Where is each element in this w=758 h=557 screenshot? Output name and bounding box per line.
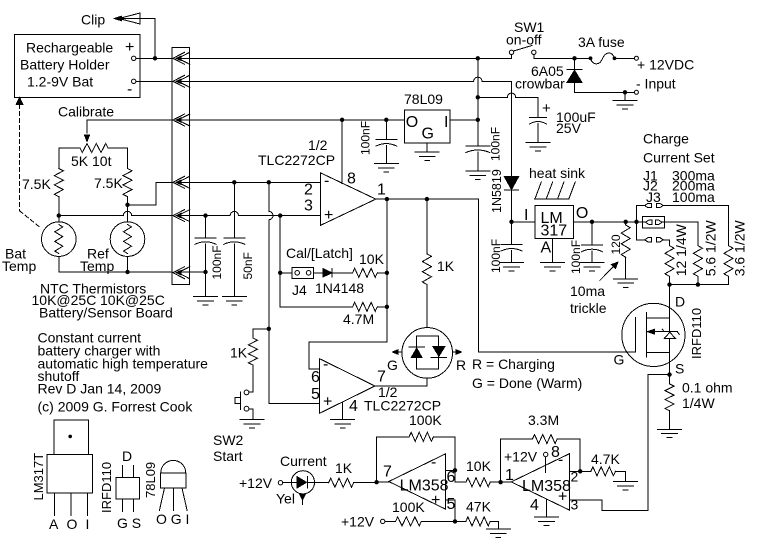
label Ref Temp: [80, 246, 114, 275]
op-amp U3b LM358: [504, 444, 579, 514]
strip arrow y=215.6: [173, 210, 185, 222]
thermistor TH1 Bat Temp: [42, 222, 77, 257]
wire U3b pin4 ground: [546, 499, 548, 517]
svg-text:trickle: trickle: [570, 300, 607, 316]
svg-text:317: 317: [541, 222, 568, 239]
switch SW1 on-off: [506, 19, 545, 55]
svg-text:100K: 100K: [392, 499, 425, 515]
svg-text:-: -: [127, 81, 132, 98]
wire J2 to R10: [662, 222, 698, 246]
ground R8: [614, 278, 638, 280]
wire latch riser: [269, 182, 273, 328]
wire to LM317 I: [512, 221, 536, 223]
svg-text:78L09: 78L09: [143, 462, 158, 498]
svg-text:+12V: +12V: [341, 514, 375, 530]
svg-text:Battery Holder: Battery Holder: [20, 57, 110, 73]
junction pin5 node: [453, 519, 457, 523]
svg-text:A: A: [49, 516, 59, 532]
wire SW1 to fuse: [534, 54, 589, 58]
svg-text:Start: Start: [213, 448, 243, 464]
wire source sense to U3b pin3: [570, 375, 670, 511]
svg-text:Clip: Clip: [81, 12, 105, 28]
wire calibrate to strip: [87, 120, 172, 133]
svg-text:3.3M: 3.3M: [528, 412, 559, 428]
ground C4: [194, 296, 218, 298]
package outline LM317T: [31, 420, 92, 532]
svg-text:G: G: [387, 357, 398, 373]
strip arrow y=58.3: [173, 52, 185, 64]
svg-text:+12V: +12V: [239, 475, 273, 491]
op-amp U3a LM358: [383, 454, 456, 513]
capacitor C2 100nF: [359, 120, 397, 164]
wire R3 to Ref Temp: [127, 205, 129, 222]
svg-text:heat sink: heat sink: [529, 165, 586, 181]
diode D2 1N5819: [490, 169, 519, 222]
svg-text:100K: 100K: [409, 412, 442, 428]
wire battery- to strip: [136, 80, 172, 82]
potentiometer R1 5K 10t: [59, 144, 128, 170]
svg-text:7: 7: [383, 464, 392, 481]
wire U2 I to riser: [450, 119, 478, 121]
connector strip J-board: [172, 48, 190, 285]
svg-text:I: I: [524, 207, 528, 224]
junction R2 bottom / Bat Temp: [57, 213, 61, 217]
battery + terminal: [132, 56, 136, 60]
junction thermistor bottoms: [125, 270, 129, 274]
svg-text:4.7M: 4.7M: [343, 311, 374, 327]
resistor R11 3.6 1/2W: [724, 219, 748, 276]
svg-text:1K: 1K: [335, 460, 353, 476]
svg-text:+: +: [431, 492, 440, 509]
junction 9V / C2: [384, 118, 388, 122]
wire 78L09 input riser: [477, 58, 479, 146]
junction 1N5819 / LM317 I: [509, 220, 513, 224]
label NTC Thermistors: [32, 281, 165, 309]
svg-text:+12V: +12V: [504, 449, 538, 465]
terminal +12V LED: [239, 475, 291, 491]
ground C6: [500, 262, 524, 264]
junction U3b output: [498, 480, 502, 484]
wire J3 to R9: [663, 240, 669, 246]
svg-text:1K: 1K: [230, 345, 248, 361]
calibrate wiper arrow: [84, 135, 89, 142]
wire battery+ to strip: [136, 57, 172, 59]
svg-text:+: +: [323, 394, 332, 411]
svg-text:4: 4: [349, 398, 358, 415]
svg-text:J3: J3: [646, 189, 661, 205]
capacitor C7 100nF at LM317 out: [569, 222, 603, 274]
ground C3: [466, 170, 490, 172]
wire jumper commons: [637, 206, 646, 240]
svg-text:5: 5: [311, 386, 320, 403]
svg-text:1: 1: [377, 182, 386, 199]
thermal link arrow to battery: [16, 98, 23, 105]
thermal link dashed wire: [20, 105, 41, 229]
junction output / 1K LED: [425, 197, 429, 201]
resistor R8 120 trickle: [609, 222, 630, 279]
wire U3b pin2: [570, 470, 581, 472]
junction feedback / 10K: [385, 271, 389, 275]
svg-text:7: 7: [377, 369, 386, 386]
ground U1b: [331, 419, 355, 421]
ground R19: [614, 481, 638, 483]
title text block: [38, 330, 209, 415]
wire J4 riser: [279, 216, 281, 307]
svg-text:4: 4: [530, 497, 539, 514]
svg-text:LM358: LM358: [522, 478, 571, 495]
svg-text:I: I: [86, 516, 90, 532]
junction O / jumpers: [634, 220, 638, 224]
wire thermistor bottoms to strip: [59, 256, 172, 272]
resistor R3 7.5K: [94, 169, 132, 205]
svg-text:100nF: 100nF: [489, 127, 503, 161]
svg-text:100nF: 100nF: [210, 245, 224, 279]
svg-text:Cal/[Latch]: Cal/[Latch]: [286, 245, 353, 261]
junction pin2 node: [578, 469, 582, 473]
svg-text:Calibrate: Calibrate: [58, 104, 114, 120]
svg-text:-: -: [323, 356, 328, 373]
wire latch to SW2 branch: [253, 328, 269, 330]
package outline 78L09: [143, 460, 189, 527]
svg-text:J4: J4: [292, 282, 307, 298]
junction latch bottom: [267, 327, 271, 331]
terminal - input: [634, 90, 638, 94]
resistor R17 47K: [455, 499, 498, 530]
svg-text:+: +: [324, 207, 333, 224]
ground SW2: [240, 419, 264, 421]
battery - terminal: [132, 79, 136, 83]
svg-text:7.5K: 7.5K: [94, 175, 123, 191]
resistor R10 5.6 1/2W: [693, 219, 718, 276]
svg-text:LM317T: LM317T: [31, 453, 46, 501]
svg-text:- Input: - Input: [636, 76, 676, 92]
svg-text:25V: 25V: [556, 120, 582, 136]
junction pin3 / J4 riser: [278, 213, 282, 217]
junction feedback / 4.7M: [385, 305, 389, 309]
label Charge Current Set: [643, 131, 715, 206]
label Bat Temp: [2, 246, 36, 275]
svg-text:8: 8: [551, 444, 560, 461]
svg-text:10K: 10K: [466, 458, 492, 474]
resistor R12 0.1 ohm 1/4W: [665, 375, 733, 430]
svg-text:1/2: 1/2: [308, 137, 328, 153]
junction pin2 / latch riser: [267, 180, 271, 184]
svg-text:Rechargeable: Rechargeable: [26, 40, 113, 56]
resistor R4 10K: [332, 251, 387, 277]
wire resistor commons to drain: [670, 276, 729, 318]
svg-text:D: D: [122, 448, 132, 464]
wire U1b output to LED: [375, 378, 427, 386]
ground at - input: [613, 92, 637, 109]
wire 100uF row: [478, 93, 538, 117]
svg-text:-: -: [431, 454, 436, 471]
junction feedback / output: [385, 197, 389, 201]
svg-text:5.6 1/2W: 5.6 1/2W: [703, 219, 719, 276]
svg-text:5: 5: [447, 496, 456, 513]
svg-text:I: I: [444, 114, 448, 131]
regulator U2 78L09: [404, 91, 450, 143]
svg-text:3A fuse: 3A fuse: [578, 34, 625, 50]
junction 9V / U1 pin8: [340, 118, 344, 122]
wire strip bottom to ground node: [181, 271, 205, 273]
junction +12 rail / 78L09 riser: [476, 56, 480, 60]
wire U3a output: [377, 481, 389, 483]
svg-text:O G I: O G I: [156, 511, 189, 527]
svg-text:10ma: 10ma: [570, 283, 605, 299]
svg-text:IRFD110: IRFD110: [689, 308, 704, 359]
junction battery+ / clip: [153, 56, 157, 60]
wire U3a pin6: [446, 469, 455, 471]
svg-text:Current Set: Current Set: [643, 150, 715, 166]
svg-text:-: -: [324, 173, 329, 190]
svg-text:50nF: 50nF: [241, 252, 255, 279]
strip arrow y=182.3: [173, 176, 185, 188]
resistor R2 7.5K: [22, 169, 63, 222]
wire R3 to strip: [128, 182, 173, 205]
svg-text:8: 8: [347, 171, 356, 188]
clip connector: [115, 13, 141, 24]
junction drain node: [667, 282, 671, 286]
svg-text:3: 3: [304, 198, 313, 215]
svg-text:O: O: [576, 205, 588, 222]
wire battery- rail to 1N5819: [181, 77, 511, 176]
svg-text:7.5K: 7.5K: [22, 176, 51, 192]
label 10ma trickle: [570, 283, 607, 316]
svg-text:Battery/Sensor Board: Battery/Sensor Board: [39, 305, 173, 321]
svg-text:R = Charging: R = Charging: [472, 356, 555, 372]
svg-text:1: 1: [505, 467, 514, 484]
ground R12: [658, 428, 682, 430]
capacitor C3 100nF at U2 input: [466, 120, 503, 171]
ground C5: [222, 296, 246, 298]
terminal +12V offset: [341, 514, 385, 530]
switch SW2 Start: [213, 365, 253, 464]
svg-text:Temp: Temp: [2, 258, 36, 274]
wire J1 to R11: [663, 206, 728, 246]
svg-text:crowbar: crowbar: [515, 76, 565, 92]
jumper header J2 with shunt: [643, 216, 665, 228]
jumper header J1: [645, 203, 664, 207]
capacitor C1 100uF 25V: [530, 100, 596, 143]
svg-text:78L09: 78L09: [404, 91, 443, 107]
svg-text:4.7K: 4.7K: [591, 451, 620, 467]
svg-text:IRFD110: IRFD110: [99, 462, 114, 513]
pointer arrow 10ma trickle: [600, 262, 618, 280]
resistor R14 100K feedback: [377, 412, 455, 482]
resistor R9 12 1/4W: [665, 223, 689, 276]
svg-text:SW2: SW2: [213, 432, 244, 448]
svg-text:Current: Current: [280, 453, 327, 469]
svg-text:G S: G S: [117, 515, 141, 531]
ground U2: [415, 151, 439, 153]
svg-text:5K 10t: 5K 10t: [71, 153, 112, 169]
junction J4 row: [278, 271, 282, 275]
strip arrow y=120: [173, 114, 185, 126]
diode D1 6A05 crowbar: [515, 58, 582, 92]
svg-text:100nF: 100nF: [569, 240, 583, 274]
svg-text:S: S: [675, 361, 684, 377]
wire - input: [575, 91, 635, 93]
junction riser / 100uF row: [476, 95, 480, 99]
wire +12 rail: [181, 54, 511, 58]
svg-text:Yel: Yel: [276, 491, 295, 507]
svg-text:10K: 10K: [359, 251, 385, 267]
wire Bat Temp node to strip: [59, 211, 172, 215]
LED D5 Current Yel: [276, 471, 315, 507]
ground C1: [526, 142, 550, 144]
wire U1a output row: [376, 198, 479, 200]
regulator U4 LM317: [524, 205, 588, 256]
svg-text:Rev D Jan 14, 2009: Rev D Jan 14, 2009: [38, 381, 162, 397]
resistor R19 4.7K: [580, 451, 625, 482]
svg-text:O: O: [67, 516, 78, 532]
junction O / R8: [624, 220, 628, 224]
op-amp U1b 1/2 TLC2272CP: [311, 356, 441, 415]
junction crowbar node: [572, 56, 576, 60]
svg-text:0.1 ohm: 0.1 ohm: [682, 380, 733, 396]
wire U1b pin4 ground: [342, 402, 344, 420]
junction pin6 node: [453, 468, 457, 472]
jumper header J3: [645, 238, 664, 242]
strip arrow y=81.3: [173, 75, 185, 87]
svg-text:Charge: Charge: [643, 131, 689, 147]
junction R10 bottom: [696, 282, 700, 286]
wire 10K to U3b output: [501, 481, 512, 483]
svg-text:1N5819: 1N5819: [490, 169, 504, 213]
wire LM317 O row: [574, 221, 643, 223]
svg-text:D: D: [675, 294, 685, 310]
strip arrow y=272.7: [173, 267, 185, 279]
wire U1a pin3 input: [181, 211, 320, 215]
junction source node: [667, 372, 671, 376]
svg-text:LM358: LM358: [400, 477, 449, 494]
diode D3 1N4148: [314, 269, 365, 297]
svg-text:47K: 47K: [466, 499, 492, 515]
svg-text:100ma: 100ma: [672, 189, 715, 205]
svg-text:A: A: [541, 239, 552, 256]
svg-text:3: 3: [571, 497, 579, 513]
capacitor C6 100nF at LM317 in: [489, 222, 522, 273]
svg-text:G: G: [422, 126, 434, 143]
thermistor TH2 Ref Temp: [110, 222, 145, 257]
svg-text:100nF: 100nF: [359, 121, 373, 155]
svg-text:1/4W: 1/4W: [682, 395, 715, 411]
ground C2: [374, 163, 398, 165]
svg-text:100nF: 100nF: [489, 239, 503, 273]
terminal +12VDC input: [634, 56, 638, 60]
svg-text:1N4148: 1N4148: [315, 280, 364, 296]
svg-text:1.2-9V Bat: 1.2-9V Bat: [27, 74, 93, 90]
resistor R7 1K pullup SW2: [230, 329, 257, 365]
svg-text:6: 6: [311, 369, 320, 386]
resistor R18 3.3M feedback: [501, 412, 581, 482]
junction ground node: [203, 270, 207, 274]
resistor R16 100K offset: [385, 499, 455, 526]
wire U1a pin2 input: [181, 181, 320, 183]
junction R3 bottom: [125, 203, 129, 207]
jumper J4 Cal/[Latch]: [280, 245, 353, 298]
wire gate drive: [479, 199, 636, 352]
ground C7: [580, 262, 604, 264]
resistor R5 4.7M: [280, 302, 387, 327]
svg-text:R: R: [456, 357, 466, 373]
svg-text:+ 12VDC: + 12VDC: [637, 56, 694, 72]
junction - input ground: [623, 90, 627, 94]
junction O / C7: [590, 220, 594, 224]
svg-text:120: 120: [609, 234, 623, 254]
resistor R6 1K: [422, 199, 454, 328]
resistor R13 1K: [314, 460, 376, 487]
junction pin3 / 100nF: [203, 213, 207, 217]
op-amp U1a 1/2 TLC2272CP: [258, 120, 386, 226]
wire U3a pin5: [446, 500, 455, 522]
heat sink symbol: [534, 182, 575, 199]
wire LM317 A to ground: [552, 239, 554, 263]
capacitor C5 50nF: [224, 182, 255, 296]
svg-text:on-off: on-off: [506, 32, 542, 48]
svg-text:G = Done (Warm): G = Done (Warm): [472, 375, 582, 391]
resistor R15 10K: [455, 458, 501, 487]
wire clip riser: [140, 19, 155, 59]
capacitor C4 100nF sensor: [195, 216, 224, 297]
junction U3a output: [374, 480, 378, 484]
ground U3b pin4: [535, 516, 559, 518]
svg-text:G: G: [614, 352, 625, 368]
svg-text:TLC2272CP: TLC2272CP: [258, 152, 335, 168]
svg-text:(c) 2009 G. Forrest Cook: (c) 2009 G. Forrest Cook: [38, 399, 194, 415]
LED D4 bicolor R/G: [387, 328, 466, 379]
ground LM317 A: [541, 262, 565, 264]
svg-text:3.6 1/2W: 3.6 1/2W: [732, 219, 748, 276]
battery holder B1: [15, 35, 141, 99]
svg-text:+: +: [125, 39, 134, 56]
wire U1a feedback riser: [309, 199, 387, 369]
junction riser / 78L09 I: [476, 118, 480, 122]
svg-text:+: +: [542, 100, 551, 117]
svg-text:2: 2: [304, 182, 313, 199]
fuse F1 3A: [578, 34, 634, 64]
package outline IRFD110: [99, 448, 141, 531]
svg-text:12 1/4W: 12 1/4W: [673, 223, 689, 276]
svg-text:O: O: [406, 114, 418, 131]
wire U2 G to ground: [426, 143, 428, 152]
wire U1b pin5 riser: [269, 329, 320, 404]
svg-text:1K: 1K: [437, 258, 455, 274]
wire 9V rail: [181, 119, 404, 121]
junction pin2 / 50nF: [232, 180, 236, 184]
transistor Q1 IRFD110: [614, 294, 705, 377]
ground R17: [486, 528, 510, 530]
